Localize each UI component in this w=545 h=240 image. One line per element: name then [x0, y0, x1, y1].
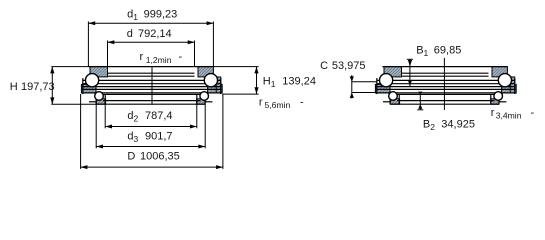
centerline left view — [151, 67, 153, 105]
left view bearing — [81, 67, 222, 105]
dimension d — [108, 40, 195, 66]
dimension d1 — [88, 21, 213, 66]
dimension d3 — [96, 101, 205, 149]
svg-text:H197,73: H197,73 — [10, 81, 55, 93]
right view bearing — [375, 67, 516, 105]
dimension H — [50, 67, 96, 105]
dimension B2 — [417, 92, 423, 110]
svg-text:B169,85: B169,85 — [416, 45, 461, 58]
centerline right view — [443, 58, 445, 110]
dimension B1 — [407, 59, 413, 86]
svg-text:D1006,35: D1006,35 — [127, 151, 179, 163]
dimension C — [350, 75, 377, 99]
dimension H1 — [213, 67, 258, 95]
white background — [0, 0, 545, 180]
svg-text:C53,975: C53,975 — [320, 60, 365, 72]
dimension d2 — [105, 101, 197, 129]
dimension D — [81, 94, 223, 169]
